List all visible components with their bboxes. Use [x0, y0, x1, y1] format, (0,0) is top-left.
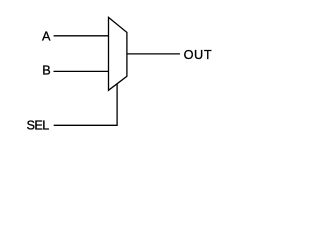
- mux U1 trapezoid body: [109, 17, 127, 90]
- svg-text:SEL: SEL: [27, 118, 50, 132]
- svg-text:OUT: OUT: [184, 48, 213, 62]
- wire B: [54, 70, 109, 72]
- wire SEL vertical: [116, 84, 118, 126]
- svg-text:A: A: [42, 29, 51, 43]
- wire OUT: [127, 53, 180, 55]
- wire SEL horizontal: [54, 124, 118, 126]
- wire A: [54, 35, 109, 37]
- svg-text:B: B: [42, 64, 50, 78]
